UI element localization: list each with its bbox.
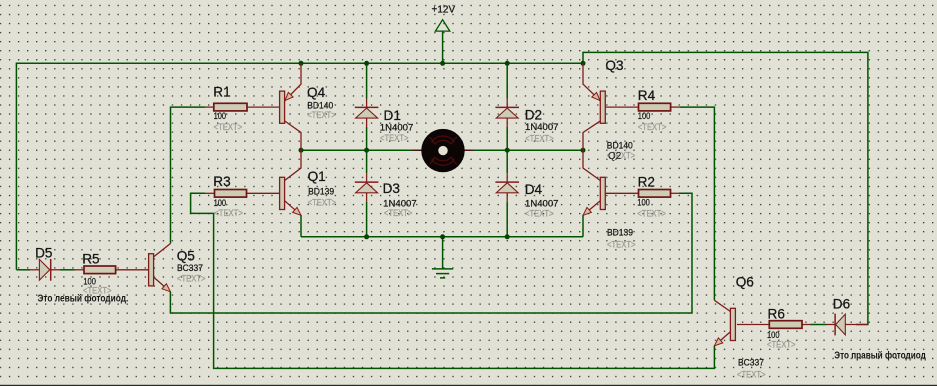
junction dots bottom rail — [364, 234, 369, 239]
svg-text:D1: D1 — [384, 108, 401, 123]
svg-text:R5: R5 — [82, 252, 99, 267]
wire D5 to R5 — [60, 269, 75, 271]
svg-text:<TEXT>: <TEXT> — [525, 133, 554, 144]
resistor R5 100 — [75, 269, 85, 271]
svg-text:<TEXT>: <TEXT> — [637, 209, 666, 220]
resistor R2 100 — [605, 192, 638, 194]
diode D5 left photodiode input — [30, 269, 39, 271]
wire D1 branch — [366, 63, 368, 98]
wire upper-right run to right edge and down to D6 — [583, 52, 868, 324]
wire Q5 collector up to R1 — [171, 107, 206, 243]
svg-text:100: 100 — [637, 198, 650, 209]
svg-text:<TEXT>: <TEXT> — [177, 273, 206, 284]
transistor Q4 BD140 PNP — [285, 63, 301, 101]
svg-text:BD139: BD139 — [607, 228, 633, 239]
svg-text:R6: R6 — [768, 307, 785, 322]
wire Q5 emitter to R2 (long middle loop) — [170, 193, 692, 313]
svg-text:1N4007: 1N4007 — [525, 122, 559, 133]
svg-text:<TEXT>: <TEXT> — [380, 133, 409, 144]
resistor R6 100 — [737, 324, 769, 326]
ground symbol — [442, 237, 444, 269]
wire bottom emitter rail — [301, 236, 583, 238]
svg-text:D2: D2 — [525, 108, 542, 123]
diode D1 1N4007 — [366, 99, 368, 108]
svg-text:R4: R4 — [638, 88, 656, 103]
transistor Q2 BD139 NPN — [583, 150, 600, 180]
svg-text:100: 100 — [214, 111, 227, 122]
transistor Q3 BD140 PNP — [583, 63, 600, 101]
svg-text:BC337: BC337 — [738, 357, 764, 368]
svg-text:<TEXT>: <TEXT> — [607, 240, 636, 251]
svg-text:D3: D3 — [383, 181, 400, 196]
power terminal +12V — [435, 20, 449, 31]
transistor Q5 BC337 NPN — [154, 244, 171, 257]
svg-text:Q5: Q5 — [177, 249, 195, 264]
svg-text:1N4007: 1N4007 — [380, 122, 414, 133]
svg-text:<TEXT>: <TEXT> — [737, 370, 766, 381]
bottom window edge — [0, 385, 937, 386]
svg-text:<TEXT>: <TEXT> — [214, 208, 243, 219]
svg-text:<TEXT>: <TEXT> — [525, 209, 554, 220]
wire +12V stem — [442, 31, 444, 63]
transistor Q6 BC337 NPN — [714, 300, 730, 311]
svg-text:Q4: Q4 — [307, 85, 326, 100]
svg-text:R1: R1 — [213, 85, 230, 100]
svg-text:<TEXT>: <TEXT> — [767, 339, 796, 350]
wire R6 to D6 — [811, 324, 827, 326]
svg-text:+12V: +12V — [432, 4, 456, 15]
svg-text:Q6: Q6 — [736, 275, 754, 290]
diode D4 1N4007 — [506, 173, 508, 182]
wire R4 to Q6 collector — [679, 107, 714, 300]
svg-text:100: 100 — [638, 111, 651, 122]
svg-text:R2: R2 — [638, 174, 655, 189]
diode D2 1N4007 — [506, 99, 508, 108]
wire Q6 emitter to R3 (long bottom loop) — [191, 193, 715, 368]
svg-text:Q2: Q2 — [608, 151, 622, 162]
wire +12V rail top-left — [16, 63, 583, 269]
svg-text:Q3: Q3 — [605, 58, 623, 73]
svg-text:D6: D6 — [833, 297, 850, 312]
svg-text:D5: D5 — [35, 246, 52, 261]
junction dots top rail — [299, 61, 304, 66]
svg-text:<TEXT>: <TEXT> — [308, 198, 337, 209]
wire D5 feed from left rail — [16, 269, 30, 271]
svg-text:Q1: Q1 — [308, 169, 326, 184]
wire D3 branch — [366, 150, 368, 173]
motor DC motor symbol — [421, 129, 464, 172]
resistor R1 100 — [205, 106, 214, 108]
wire D4 branch — [506, 150, 508, 173]
svg-text:<TEXT>: <TEXT> — [214, 122, 243, 133]
svg-text:<TEXT>: <TEXT> — [307, 110, 336, 121]
diode D3 1N4007 — [366, 173, 368, 182]
svg-text:<TEXT>: <TEXT> — [638, 122, 667, 133]
svg-text:BD139: BD139 — [308, 187, 334, 198]
wire Q2 emitter to rail — [582, 215, 584, 237]
transistor Q1 BD139 NPN — [285, 150, 301, 180]
svg-text:<TEXT>: <TEXT> — [384, 208, 413, 219]
svg-text:Это правый фотодиод: Это правый фотодиод — [834, 349, 926, 361]
resistor R3 100 — [205, 192, 215, 194]
svg-text:R3: R3 — [213, 174, 230, 189]
svg-text:D4: D4 — [525, 182, 543, 197]
junction dots motor rail — [299, 148, 304, 153]
svg-text:Это левый фотодиод.: Это левый фотодиод. — [38, 293, 129, 305]
resistor R4 100 — [605, 106, 638, 108]
motor pin stubs — [412, 149, 422, 151]
wire motor rail — [301, 149, 583, 151]
wire D2 branch — [506, 63, 508, 98]
wire Q1 emitter to rail — [300, 215, 302, 237]
diode D6 right photodiode input — [827, 324, 836, 326]
